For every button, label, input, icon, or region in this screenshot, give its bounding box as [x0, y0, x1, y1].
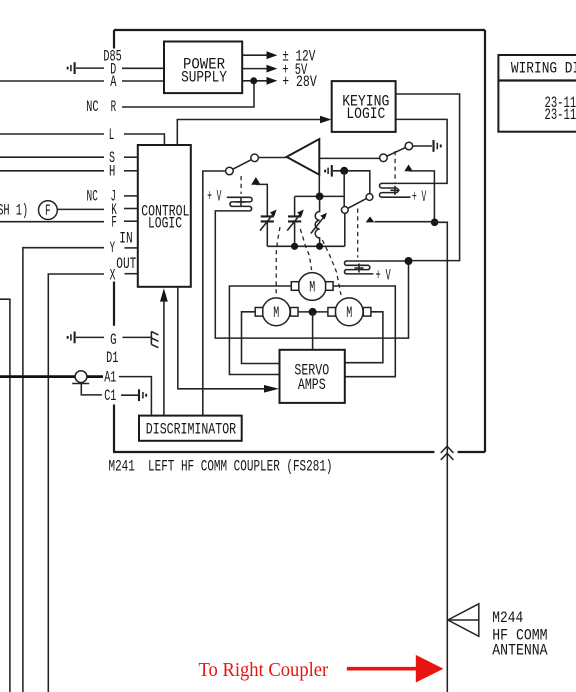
- wire: M3 armature to servo amps: [345, 312, 383, 363]
- power supply U1 box: [164, 42, 242, 94]
- svg-text:L: L: [109, 126, 115, 144]
- wire: motor bus right to servo amps: [333, 286, 395, 377]
- wire: keying logic output A down right side to relay coil K3: [396, 94, 460, 261]
- wire: feedthrough to S3 upper contact: [333, 171, 370, 194]
- wire: pin G internal to chassis ground: [123, 336, 152, 338]
- svg-text:NC: NC: [86, 98, 99, 116]
- svg-text:+ V: + V: [207, 187, 221, 205]
- wire: C2 lower plate to tuning rail: [294, 221, 296, 246]
- svg-text:WIRING DIAGRAM: WIRING DIAGRAM: [511, 60, 576, 78]
- wire: unterminated cable at left edge: [0, 299, 10, 692]
- svg-text:D1: D1: [106, 349, 118, 367]
- wire: control logic to keying logic with arrow: [177, 120, 320, 146]
- svg-text:M: M: [346, 304, 352, 322]
- wire: motor common to servo amps top: [312, 312, 314, 350]
- relay coil K1 with +V return: [215, 197, 408, 338]
- svg-text:M244: M244: [492, 609, 523, 627]
- wire: S3 lower contact to tuning rail: [344, 213, 346, 246]
- wire: K3 top lead to junction N3: [370, 260, 409, 262]
- svg-text:R: R: [111, 98, 117, 116]
- svg-text:M: M: [273, 304, 279, 322]
- wire: +5V output: [242, 68, 267, 70]
- svg-text:OUT: OUT: [116, 255, 136, 273]
- RX/bypass switch S2 contacts: [380, 154, 388, 162]
- motor M1 (top): [298, 273, 326, 301]
- svg-text:X: X: [110, 267, 116, 285]
- coupler enclosure M241 top border: [114, 29, 485, 31]
- wire: pin Y external from page bottom: [23, 248, 104, 692]
- wire: motor bus left to servo amps: [229, 286, 291, 375]
- svg-text:SUPPLY: SUPPLY: [181, 69, 227, 87]
- wire: pin D external feedthrough lead: [76, 67, 104, 69]
- wire: bus marker to variable capacitor C1: [256, 184, 267, 216]
- svg-text:To Right Coupler: To Right Coupler: [199, 659, 329, 681]
- svg-text:(SH 1): (SH 1): [0, 202, 28, 220]
- PA amplifier A1 triangle: [287, 139, 320, 175]
- svg-text:ANTENNA: ANTENNA: [492, 641, 548, 659]
- svg-text:G: G: [110, 331, 116, 349]
- keying logic U3 box: [332, 81, 396, 132]
- coupler enclosure bottom border (gap at antenna feedthrough): [113, 451, 485, 453]
- wire: pin L external: [0, 133, 104, 135]
- feedthrough capacitor on pin G external: [67, 336, 69, 339]
- variable inductor L1 winding: [315, 196, 319, 246]
- wire: pin S external: [0, 156, 104, 158]
- antenna tune switch S3 arm: [348, 199, 367, 209]
- wire: keying logic output B down to relay coil K2: [396, 119, 448, 183]
- svg-text:+ 28V: + 28V: [282, 73, 317, 91]
- junction N2: [431, 219, 439, 227]
- wire: S2 to feedthrough capacitor: [413, 145, 432, 147]
- wire: pin A stub to power supply: [122, 80, 164, 82]
- mechanical link K1 to S1: [240, 176, 242, 194]
- motor M2 (left): [262, 298, 290, 326]
- wire: +-12V output: [242, 54, 267, 56]
- junction node N1: [316, 193, 324, 201]
- coupler enclosure left border segments: [113, 30, 115, 452]
- antenna feedthrough chevrons at enclosure exit: [441, 446, 454, 460]
- svg-text:+ V: + V: [376, 266, 391, 284]
- wire: M2 armature to servo amps: [242, 312, 280, 364]
- wire: junction down to S3 lower contact: [343, 171, 345, 207]
- wire: pin S stub: [124, 156, 138, 158]
- discriminator U5 box: [139, 416, 242, 441]
- wire: N2 to antenna feed line: [435, 222, 448, 692]
- antenna tune switch S3 contacts: [341, 207, 348, 214]
- wire: coax A1 center conductor (thick): [0, 375, 103, 378]
- wire: pin R to +28V junction: [122, 81, 254, 107]
- +28V bus marker (solid triangle) feeding C1: [251, 177, 260, 185]
- svg-text:H: H: [109, 163, 115, 181]
- wire: pin L stub into control logic top: [124, 134, 164, 145]
- junction on amp output line: [340, 167, 348, 175]
- TR switch S1 contacts: [226, 167, 234, 175]
- polarity mark on K2: [390, 186, 399, 195]
- wiring diagram reference table: [498, 55, 576, 132]
- mechanical link L1 to motor M3: [322, 240, 341, 295]
- wire: +28V output: [242, 80, 267, 82]
- svg-text:+ V: + V: [412, 188, 426, 206]
- junction on +28V line: [250, 77, 257, 84]
- annotation red arrow: [347, 667, 417, 671]
- svg-text:LOGIC: LOGIC: [148, 214, 182, 232]
- svg-text:F: F: [45, 202, 51, 220]
- svg-text:23-110: 23-110: [545, 106, 576, 124]
- wire: antenna sense line from TR switch to discriminator: [203, 171, 226, 416]
- mechanical link C2 to motor M1: [300, 229, 311, 270]
- polarity mark on K1: [236, 198, 245, 207]
- wire: variable capacitor C2 riser: [294, 196, 296, 216]
- feedthrough capacitor on amplifier output line: [324, 170, 326, 173]
- chassis ground at G: [151, 331, 158, 348]
- control logic U2 box: [138, 145, 191, 287]
- RX/bypass switch S2 arm: [387, 148, 406, 157]
- junction C2 on rail: [291, 243, 298, 250]
- wire: left bus marker to junction N2: [375, 221, 435, 223]
- junction motor common: [309, 308, 317, 316]
- wire: bus marker to junction N2: [409, 171, 435, 222]
- junction L1 on rail: [316, 243, 323, 250]
- wire: pin K stub: [124, 208, 138, 210]
- motor M3 (right): [335, 298, 363, 326]
- wire: pin H external: [0, 170, 104, 172]
- wire: control logic to servo amps with arrow: [178, 287, 265, 389]
- svg-text:M: M: [309, 279, 315, 297]
- wire: pin A1 stub to discriminator: [119, 377, 152, 416]
- coupler enclosure right border: [484, 30, 486, 452]
- wire: pin X external from page bottom: [48, 274, 104, 692]
- svg-text:Y: Y: [110, 239, 116, 257]
- shield bar under A1: [72, 383, 89, 385]
- junction N3: [405, 257, 413, 265]
- svg-text:A: A: [110, 73, 116, 91]
- svg-text:F: F: [111, 213, 116, 231]
- node N1 wire: variable cap C2 top to S3 stem: [295, 195, 345, 197]
- wire: amplifier input from S2: [319, 157, 379, 159]
- polarity mark on K3: [354, 264, 363, 273]
- variable capacitor C1 plates: [261, 216, 274, 221]
- feedthrough capacitor at S2: [432, 140, 434, 152]
- wire: pin F stub: [124, 220, 138, 222]
- mechanical link K3 to S3: [357, 209, 359, 258]
- wire: pin X stub: [125, 273, 139, 275]
- variable inductor L1 arrow: [311, 216, 325, 234]
- wire: pin Y stub: [125, 247, 139, 249]
- wire: amplifier base corner down to node N1: [318, 175, 320, 197]
- variable capacitor C1 arrow: [260, 212, 275, 230]
- shield pickoff circle on A1: [75, 371, 87, 383]
- svg-text:A1: A1: [104, 368, 116, 386]
- relay coil K3 winding: [345, 261, 374, 274]
- mechanical link K2 to S2: [394, 151, 396, 183]
- antenna M244 symbol: [448, 604, 479, 637]
- wire: pin F external: [0, 221, 104, 223]
- variable capacitor C2 arrow: [287, 212, 302, 230]
- wire: pin C1 stub to feedthrough capacitor: [121, 394, 138, 396]
- mechanical link C1 to motor M2: [276, 227, 280, 294]
- svg-text:NC: NC: [87, 187, 98, 205]
- svg-text:M241 LEFT HF COMM COUPLER (FS: M241 LEFT HF COMM COUPLER (FS281): [109, 458, 333, 476]
- TR switch S1 arm: [233, 160, 252, 170]
- wire: pin A external: [0, 80, 104, 82]
- variable capacitor C2 plates: [288, 216, 301, 221]
- svg-text:DISCRIMINATOR: DISCRIMINATOR: [146, 421, 237, 439]
- wire: pin J stub: [124, 195, 138, 197]
- svg-text:AMPS: AMPS: [298, 376, 326, 394]
- wire: discriminator to control logic with arrow: [163, 300, 165, 416]
- svg-text:IN: IN: [119, 229, 132, 247]
- feedthrough capacitor at C1: [138, 389, 140, 401]
- wire: shield to pin C1: [81, 384, 102, 395]
- wire: pin H stub: [124, 170, 138, 172]
- +28V bus marker feeding RF output line: [404, 165, 413, 172]
- svg-text:C1: C1: [104, 387, 116, 405]
- wire: pin D stub to power supply: [122, 67, 164, 69]
- wire: M2-M3 common: [298, 311, 328, 313]
- relay coil K2 winding: [379, 183, 410, 197]
- tuning network bottom rail: [267, 245, 345, 247]
- servo amps U4 box: [280, 350, 345, 403]
- wire: C1 lower plate to tuning rail: [266, 221, 268, 246]
- feedthrough capacitor on pin D lead: [67, 67, 69, 70]
- wire: F circle to pin K: [57, 208, 104, 210]
- +28V bus marker feeding N2 from left: [366, 217, 375, 223]
- wire: S1 to PA amplifier apex: [258, 157, 286, 159]
- svg-text:LOGIC: LOGIC: [346, 105, 385, 123]
